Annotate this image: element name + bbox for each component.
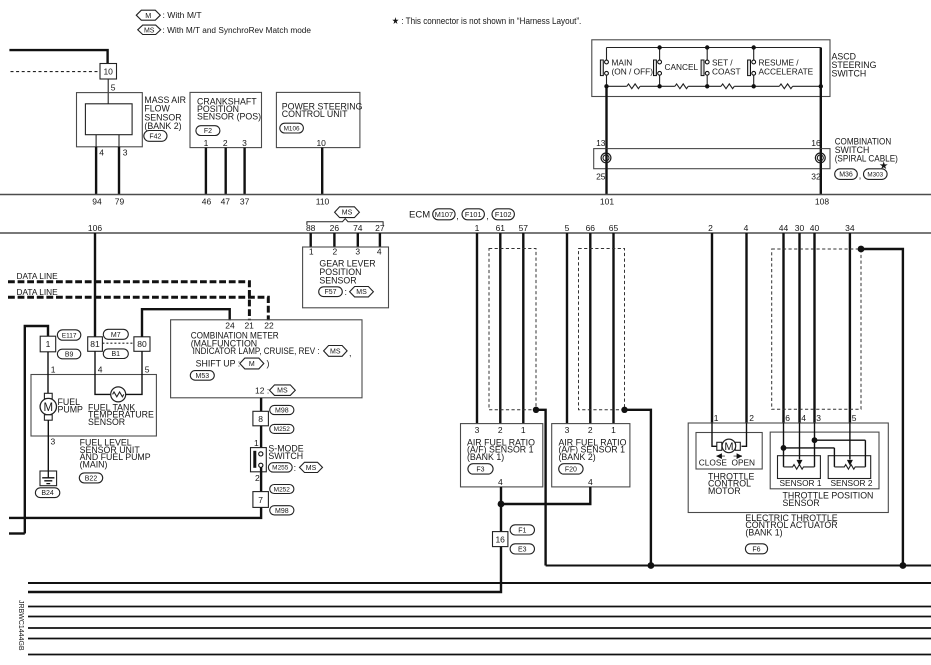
connector M7 xyxy=(103,329,128,339)
fuel pump motor xyxy=(40,393,56,420)
svg-text:SENSOR 1: SENSOR 1 xyxy=(780,478,822,488)
svg-text:5: 5 xyxy=(852,413,857,423)
svg-text:44: 44 xyxy=(779,223,789,233)
svg-text:1: 1 xyxy=(46,339,51,349)
svg-text:27: 27 xyxy=(375,223,385,233)
bus line 4 xyxy=(28,616,931,618)
svg-text:74: 74 xyxy=(353,223,363,233)
svg-text:F20: F20 xyxy=(565,466,577,473)
svg-text:COAST: COAST xyxy=(712,67,741,77)
MAF label xyxy=(144,95,186,131)
wire MAF pin4 xyxy=(95,135,97,147)
svg-text:M: M xyxy=(724,441,733,453)
legend MS symbol xyxy=(138,25,312,35)
legend M/T symbol xyxy=(136,10,202,20)
svg-text:3: 3 xyxy=(816,413,821,423)
connector E117 xyxy=(57,330,80,340)
wire temp sensor to 80 xyxy=(126,351,142,394)
svg-text:40: 40 xyxy=(810,223,820,233)
connector 10 xyxy=(100,64,117,80)
svg-text:16: 16 xyxy=(811,138,821,148)
svg-text:3: 3 xyxy=(565,425,570,435)
svg-text:PUMP: PUMP xyxy=(58,405,84,415)
A/F bank1 label xyxy=(467,437,535,462)
svg-text:57: 57 xyxy=(519,223,529,233)
combination switch label xyxy=(835,137,898,173)
spiral symbol right xyxy=(815,149,825,169)
svg-text:34: 34 xyxy=(845,223,855,233)
svg-text:1: 1 xyxy=(475,223,480,233)
svg-text:(MAIN): (MAIN) xyxy=(80,460,108,470)
svg-text:M303: M303 xyxy=(867,171,883,178)
TPS wiring xyxy=(781,423,866,467)
fuel tank temperature sensor (thermistor) xyxy=(111,387,126,402)
wire meter 12 to connector 8 xyxy=(260,398,262,412)
wire gear pin 88 xyxy=(310,233,312,247)
sensor1 resistor and wiper xyxy=(784,423,815,469)
wire to fuel connector 1 xyxy=(25,326,48,534)
THROTTLE CONTROL MOTOR label xyxy=(708,471,755,496)
connector box 8 xyxy=(253,411,269,426)
connector box 16 xyxy=(493,532,508,547)
svg-text:F6: F6 xyxy=(752,546,760,553)
svg-text:B9: B9 xyxy=(65,352,74,359)
svg-text:1: 1 xyxy=(309,246,314,256)
A/F bank2 label xyxy=(559,437,627,462)
wire to sheet (top left heavy) xyxy=(9,50,107,63)
svg-text:: With M/T and SynchroRev Matc: : With M/T and SynchroRev Match mode xyxy=(163,25,312,35)
gear lever label xyxy=(319,259,375,286)
svg-text:OPEN: OPEN xyxy=(732,457,756,467)
A/F bank2 pin labels xyxy=(565,425,617,435)
svg-text::: : xyxy=(294,463,296,473)
svg-text:106: 106 xyxy=(88,223,102,233)
svg-text:M36: M36 xyxy=(839,172,853,179)
svg-text:M: M xyxy=(145,11,151,20)
svg-text:1: 1 xyxy=(51,364,56,374)
svg-text:F2: F2 xyxy=(204,128,212,135)
shield drain bank1 xyxy=(533,407,546,566)
svg-text:1: 1 xyxy=(521,425,526,435)
crankshaft position sensor box xyxy=(190,92,262,147)
connector F6 xyxy=(745,544,767,554)
throttle position sensor box xyxy=(770,432,879,489)
wire PS pin10 xyxy=(321,148,323,195)
data line wire 2 xyxy=(8,297,268,320)
wire ECM pin 5 to A/F sensor xyxy=(566,233,568,424)
svg-text:37: 37 xyxy=(240,197,250,207)
pin labels 1 2 3 xyxy=(204,138,248,148)
svg-text:61: 61 xyxy=(496,223,506,233)
svg-text:MS: MS xyxy=(342,210,353,217)
svg-text:DATA LINE: DATA LINE xyxy=(17,271,59,281)
svg-text:M252: M252 xyxy=(274,426,291,433)
bus line 3 xyxy=(28,606,931,608)
shield (dashed) throttle sensor xyxy=(772,249,861,409)
svg-text:: With M/T: : With M/T xyxy=(163,10,203,20)
svg-text:24: 24 xyxy=(225,321,235,331)
connector B24 xyxy=(35,488,59,498)
wire ECM pin 4 to throttle motor xyxy=(745,233,747,423)
wire 81 down to temp sensor xyxy=(95,351,111,394)
svg-text:F42: F42 xyxy=(149,133,161,140)
svg-text:SENSOR: SENSOR xyxy=(319,275,356,285)
s-mode switch symbol xyxy=(251,448,267,472)
mass air flow sensor F42 box xyxy=(77,93,143,147)
connectors M36 M303 xyxy=(835,169,887,181)
ground bus line 1 xyxy=(546,562,931,569)
svg-text:SENSOR (POS): SENSOR (POS) xyxy=(197,112,261,122)
combination meter label xyxy=(191,331,352,369)
svg-text:B24: B24 xyxy=(41,490,54,497)
svg-text:47: 47 xyxy=(221,197,231,207)
connector M98 xyxy=(270,405,294,414)
svg-text:16: 16 xyxy=(495,535,505,545)
gear lever position sensor box xyxy=(303,247,389,308)
svg-text:F57: F57 xyxy=(324,289,336,296)
svg-text:5: 5 xyxy=(565,223,570,233)
wire pump to ground xyxy=(47,420,49,471)
svg-text:2: 2 xyxy=(498,425,503,435)
svg-text:(BANK 2): (BANK 2) xyxy=(559,452,596,462)
wire connector 8 to switch xyxy=(260,426,262,453)
sensor2 box xyxy=(828,456,871,479)
wire MAF pin3 xyxy=(118,135,120,147)
wire spiral right to ECM xyxy=(820,169,822,195)
connector box 81 xyxy=(88,337,103,352)
svg-text:80: 80 xyxy=(137,339,147,349)
svg-text:94: 94 xyxy=(92,197,102,207)
svg-text::: : xyxy=(345,287,347,297)
svg-text:(SPIRAL CABLE): (SPIRAL CABLE) xyxy=(835,153,898,163)
wire ECM pin 1 to A/F sensor xyxy=(476,233,478,424)
bus line 5 xyxy=(28,627,931,629)
svg-text:12 :: 12 : xyxy=(255,385,269,395)
wire connector 7 to left stub xyxy=(9,507,261,518)
bracket over gear lever pins xyxy=(307,219,383,225)
sensor1 box xyxy=(778,456,821,479)
svg-text:E3: E3 xyxy=(518,546,527,553)
svg-text:SENSOR: SENSOR xyxy=(783,498,820,508)
connector M98 (2) xyxy=(270,506,294,515)
svg-text:22: 22 xyxy=(264,321,274,331)
svg-text:88: 88 xyxy=(306,223,316,233)
svg-text:MOTOR: MOTOR xyxy=(708,486,741,496)
svg-text:,: , xyxy=(486,211,488,221)
wire ASCD right to spiral xyxy=(820,48,822,149)
svg-text:4: 4 xyxy=(588,477,593,487)
wire ECM pin 65 to A/F sensor xyxy=(612,233,614,424)
ASCD top rail xyxy=(607,47,821,49)
svg-text:M252: M252 xyxy=(274,486,291,493)
connector box 7 xyxy=(253,492,269,508)
switch RESUME/ACCELERATE xyxy=(748,48,814,87)
svg-text:INDICATOR LAMP, CRUISE, REV :: INDICATOR LAMP, CRUISE, REV : xyxy=(193,346,320,356)
bus line 2 xyxy=(28,582,931,584)
svg-text:66: 66 xyxy=(586,223,596,233)
wire ECM pin 66 to A/F sensor xyxy=(589,233,591,424)
CLOSE OPEN labels xyxy=(699,457,755,467)
bus line 7 xyxy=(28,654,931,656)
ECM name and connectors xyxy=(409,209,514,221)
svg-text:5: 5 xyxy=(145,364,150,374)
svg-text:DATA LINE: DATA LINE xyxy=(17,287,59,297)
wire switch to connector 7 xyxy=(260,467,262,492)
wire ECM pin 106 xyxy=(94,233,96,337)
svg-text:2: 2 xyxy=(588,425,593,435)
svg-text:13: 13 xyxy=(596,138,606,148)
shield (dashed) A/F bank1 xyxy=(489,249,536,410)
svg-text:3: 3 xyxy=(51,437,56,447)
svg-text:JRBWC1444GB: JRBWC1444GB xyxy=(17,600,24,651)
svg-text:SWITCH: SWITCH xyxy=(268,451,303,461)
svg-text:8: 8 xyxy=(258,414,263,424)
sensor2 resistor and wiper xyxy=(834,423,865,469)
svg-text:MS: MS xyxy=(306,465,317,472)
svg-text:CANCEL: CANCEL xyxy=(665,62,699,72)
wire spiral left to ECM xyxy=(605,169,607,195)
ELECTRIC THROTTLE label xyxy=(745,513,837,538)
ETC pin labels xyxy=(714,413,857,423)
ground B24 xyxy=(40,471,57,486)
MS symbol over gear lever pins xyxy=(335,207,360,218)
svg-text:M255: M255 xyxy=(272,465,289,472)
shield (dashed) A/F bank2 xyxy=(579,249,625,410)
connector B1 xyxy=(103,349,128,359)
throttle motor symbol xyxy=(712,423,747,453)
svg-text:CLOSE: CLOSE xyxy=(699,457,728,467)
connector F1 xyxy=(510,525,534,535)
close/open arrows xyxy=(716,453,742,459)
FUEL PUMP label xyxy=(58,397,84,414)
wire ECM pin 40 to throttle sensor xyxy=(813,233,815,423)
FUEL TANK TEMPERATURE SENSOR label xyxy=(88,402,154,427)
svg-text:4: 4 xyxy=(377,246,382,256)
THROTTLE POSITION SENSOR label xyxy=(783,491,874,508)
connector M255 with MS xyxy=(268,462,322,473)
svg-text:21: 21 xyxy=(244,321,254,331)
wire A/F pin4 join xyxy=(498,487,591,532)
svg-text:B1: B1 xyxy=(112,351,121,358)
PS label xyxy=(282,101,363,119)
svg-text:F1: F1 xyxy=(518,527,526,534)
svg-text:32: 32 xyxy=(811,172,821,182)
svg-text:46: 46 xyxy=(202,197,212,207)
svg-text:CONTROL UNIT: CONTROL UNIT xyxy=(282,109,348,119)
svg-text:4: 4 xyxy=(498,477,503,487)
svg-text:3: 3 xyxy=(475,425,480,435)
connector E3 xyxy=(510,544,534,554)
svg-text:7: 7 xyxy=(258,495,263,505)
A/F bank1 pin labels xyxy=(475,425,526,435)
wire crank pin2 xyxy=(224,148,226,195)
ECM bus line top xyxy=(0,194,931,196)
svg-text:4: 4 xyxy=(99,147,104,157)
svg-text:101: 101 xyxy=(600,197,614,207)
wire pin5 xyxy=(107,79,109,104)
connector F2 xyxy=(196,126,220,136)
svg-text:110: 110 xyxy=(316,197,330,207)
svg-text:(ON / OFF): (ON / OFF) xyxy=(612,67,654,77)
connector M53 xyxy=(190,371,214,381)
svg-text:1: 1 xyxy=(611,425,616,435)
svg-text:M106: M106 xyxy=(284,125,300,132)
wire gear pin 26 xyxy=(333,233,335,247)
ASCD bottom rail with resistors xyxy=(607,84,821,89)
electric throttle control actuator box xyxy=(688,423,888,513)
wire crank pin1 xyxy=(205,148,207,195)
switch CANCEL xyxy=(654,48,699,87)
wire gear pin 74 xyxy=(357,233,359,247)
FUEL LEVEL SENSOR UNIT label xyxy=(80,438,151,470)
data line wire 1 xyxy=(8,282,249,320)
svg-text:3: 3 xyxy=(123,147,128,157)
switch MAIN xyxy=(600,48,653,87)
svg-text:SWITCH: SWITCH xyxy=(832,69,867,79)
svg-text:M107: M107 xyxy=(435,210,453,219)
fuel level sensor unit box xyxy=(31,375,156,437)
svg-text:108: 108 xyxy=(815,197,829,207)
svg-text:10: 10 xyxy=(316,138,326,148)
svg-text:2: 2 xyxy=(749,413,754,423)
svg-text:1: 1 xyxy=(714,413,719,423)
svg-text:4: 4 xyxy=(744,223,749,233)
ASCD rail junction dots xyxy=(604,45,823,88)
svg-text:2: 2 xyxy=(223,138,228,148)
wire stub left xyxy=(9,532,25,534)
svg-text:M: M xyxy=(249,361,255,368)
svg-text:SENSOR: SENSOR xyxy=(88,417,125,427)
svg-text:M7: M7 xyxy=(111,332,121,339)
svg-text:,: , xyxy=(349,348,351,358)
bus line 6 xyxy=(28,638,931,640)
connector box 1 xyxy=(40,336,56,352)
ECM pin labels above bottom bus xyxy=(88,223,855,233)
svg-text:(BANK 1): (BANK 1) xyxy=(467,452,504,462)
air fuel ratio sensor bank1 box xyxy=(461,424,543,487)
connector F3 xyxy=(468,464,493,474)
ASCD label xyxy=(832,52,877,79)
svg-text:MS: MS xyxy=(277,388,288,395)
combination switch spiral cable box xyxy=(594,149,830,169)
svg-text:): ) xyxy=(267,359,270,369)
wire ECM pin 44 to throttle sensor xyxy=(782,233,784,423)
svg-text:MS: MS xyxy=(144,27,155,34)
svg-text:1: 1 xyxy=(204,138,209,148)
connector F42 xyxy=(144,131,167,142)
gear pin labels xyxy=(309,246,382,256)
svg-text:26: 26 xyxy=(330,223,340,233)
svg-text:MS: MS xyxy=(330,348,341,355)
svg-text:,: , xyxy=(456,211,458,221)
wire crank pin3 xyxy=(243,148,245,195)
svg-text:ACCELERATE: ACCELERATE xyxy=(759,67,814,77)
svg-text:2: 2 xyxy=(255,473,260,483)
svg-text:★ : This connector is not show: ★ : This connector is not shown in “Harn… xyxy=(392,16,582,26)
meter pin 12 with MS xyxy=(255,385,295,396)
svg-text:65: 65 xyxy=(609,223,619,233)
connector M106 xyxy=(280,123,304,133)
shield drain bank2 xyxy=(621,407,651,566)
svg-text:10: 10 xyxy=(103,67,113,77)
shield drain to ground xyxy=(858,246,903,566)
throttle control motor box xyxy=(696,433,762,470)
svg-text:B22: B22 xyxy=(85,475,98,482)
connector B9 xyxy=(57,349,80,359)
svg-text:2: 2 xyxy=(333,246,338,256)
ASCD steering switch box xyxy=(592,40,830,97)
svg-text:MS: MS xyxy=(356,289,367,296)
spiral symbol left xyxy=(601,149,611,169)
wire dashed (top left) xyxy=(11,71,100,73)
svg-text:ECM: ECM xyxy=(409,210,430,221)
svg-text:2: 2 xyxy=(708,223,713,233)
connector M252 (2) xyxy=(270,485,294,494)
svg-text:M: M xyxy=(44,402,54,414)
connector F20 xyxy=(559,464,583,474)
svg-text:4: 4 xyxy=(98,364,103,374)
svg-text:M98: M98 xyxy=(275,508,289,515)
ECM pin labels below top bus xyxy=(92,197,829,207)
wire ECM pin 2 to throttle motor xyxy=(711,233,713,423)
crankshaft label xyxy=(197,97,261,122)
svg-text:F3: F3 xyxy=(476,466,484,473)
wire ECM pin 57 to A/F sensor xyxy=(522,233,524,424)
combination meter box xyxy=(171,320,362,398)
svg-text:SENSOR 2: SENSOR 2 xyxy=(831,478,873,488)
wire ECM pin 30 to throttle sensor xyxy=(798,233,800,423)
connector F57 with MS xyxy=(319,287,374,298)
wire ASCD left to spiral xyxy=(605,86,607,148)
svg-text:SHIFT UP :: SHIFT UP : xyxy=(196,359,241,369)
svg-text:79: 79 xyxy=(115,197,125,207)
svg-text:F101: F101 xyxy=(465,210,482,219)
dotted link 81-80 xyxy=(102,342,133,344)
svg-text:M53: M53 xyxy=(195,373,209,380)
svg-text:(BANK 1): (BANK 1) xyxy=(745,527,782,537)
svg-text:6: 6 xyxy=(785,413,790,423)
air fuel ratio sensor bank2 box xyxy=(552,424,630,487)
wire conn1 to pump xyxy=(47,352,49,394)
connector M252 xyxy=(270,424,294,433)
svg-text:3: 3 xyxy=(355,246,360,256)
svg-text:4: 4 xyxy=(801,413,806,423)
svg-text:81: 81 xyxy=(90,339,100,349)
svg-text:E117: E117 xyxy=(62,332,77,339)
wire 16 to left bus xyxy=(28,547,501,592)
wire 80 to meter pin 24 xyxy=(142,309,230,337)
switch SET/COAST xyxy=(701,48,740,87)
svg-text:(BANK 2): (BANK 2) xyxy=(144,121,181,131)
svg-text:3: 3 xyxy=(242,138,247,148)
ECM bus line bottom xyxy=(0,232,931,234)
svg-text:1: 1 xyxy=(254,438,259,448)
wire ECM pin 61 to A/F sensor xyxy=(499,233,501,424)
svg-text:M98: M98 xyxy=(275,408,289,415)
wire ECM pin 34 to throttle sensor xyxy=(849,233,851,423)
svg-text:F102: F102 xyxy=(495,210,512,219)
svg-text:5: 5 xyxy=(111,83,116,93)
wire gear pin 27 xyxy=(379,233,381,247)
svg-text:,: , xyxy=(859,170,861,180)
svg-text:25: 25 xyxy=(596,172,606,182)
S-MODE SWITCH label xyxy=(268,444,303,461)
connector box 80 xyxy=(134,337,150,352)
SENSOR labels xyxy=(780,478,873,488)
note: connector not shown in harness layout xyxy=(392,16,582,26)
svg-text:30: 30 xyxy=(795,223,805,233)
power steering control unit box xyxy=(276,92,360,147)
